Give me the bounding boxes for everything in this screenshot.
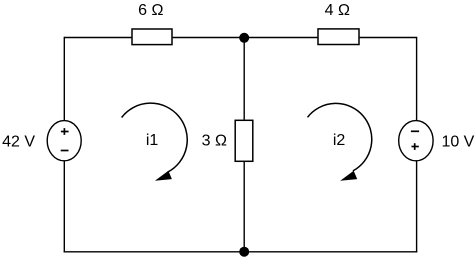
voltage source V2 10V [399, 121, 433, 161]
label 3 ohm value [202, 133, 227, 150]
label 4 ohm value [325, 2, 350, 19]
label 10 V [441, 133, 474, 150]
resistor R3 3 ohm [235, 120, 253, 161]
svg-text:42 V: 42 V [2, 133, 35, 150]
resistor R1 6 ohm [132, 29, 172, 45]
svg-text:3 Ω: 3 Ω [202, 133, 227, 150]
label i2 [333, 132, 346, 149]
node top junction [239, 33, 249, 43]
svg-text:6 Ω: 6 Ω [138, 2, 163, 19]
wire top-middle segment [173, 37, 318, 39]
mesh current arrow i1 [122, 103, 188, 181]
svg-text:i1: i1 [146, 132, 159, 149]
wire left vertical lower [63, 161, 65, 253]
svg-text:10 V: 10 V [441, 133, 474, 150]
wire middle vertical upper [243, 38, 245, 120]
label i1 [146, 132, 159, 149]
wire left vertical upper [63, 37, 65, 121]
svg-text:4 Ω: 4 Ω [325, 2, 350, 19]
label 6 ohm value [138, 2, 163, 19]
wire top-right segment [360, 37, 417, 39]
wire middle vertical lower [243, 162, 245, 252]
wire bottom [64, 251, 418, 253]
node bottom junction [239, 247, 249, 257]
mesh current arrow i2 [308, 103, 372, 180]
wire right vertical upper [416, 37, 418, 121]
wire top-left segment [64, 37, 132, 39]
label 42 V [2, 133, 35, 150]
voltage source V1 42V [47, 121, 81, 161]
resistor R2 4 ohm [318, 29, 359, 45]
svg-text:i2: i2 [333, 132, 346, 149]
wire right vertical lower [416, 161, 418, 253]
